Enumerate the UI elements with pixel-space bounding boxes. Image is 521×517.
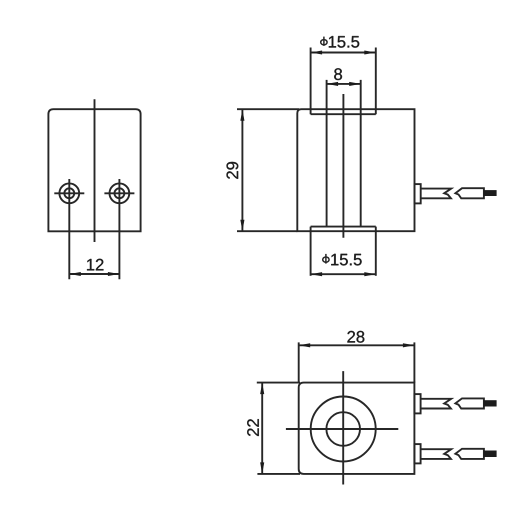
top view lead grommet tab 1	[414, 394, 420, 413]
side view body outline	[297, 109, 414, 231]
side view bottom edge / 29 extension line bottom	[237, 230, 297, 232]
dimension 8	[327, 68, 361, 86]
top view terminal 2 crimp (black)	[484, 451, 497, 458]
coil bore circle (phi8)	[326, 412, 360, 446]
dimension 22	[247, 383, 264, 474]
bore line left (8mm)	[326, 80, 328, 227]
side view vertical centerline	[342, 94, 344, 238]
mounting hole H2	[104, 179, 134, 279]
front view body outline	[48, 109, 140, 231]
top boss lip line	[311, 113, 376, 115]
top view body outline	[299, 383, 415, 474]
front view vertical centerline	[94, 99, 96, 242]
top view lead grommet tab 2	[414, 444, 420, 463]
dimension 28	[299, 331, 415, 347]
side view top edge / 29 extension line top	[237, 108, 299, 110]
top boss edge right / phi15.5 extension	[375, 48, 377, 115]
top view terminal 1 crimp (black)	[484, 400, 497, 406]
top view 22 extension line top	[257, 382, 300, 384]
top view horizontal centerline	[286, 428, 398, 430]
top view 28 extension line left	[298, 342, 300, 382]
dimension 29	[227, 109, 245, 231]
dimension phi15.5 bottom	[311, 254, 376, 276]
side view terminal crimp (black)	[484, 190, 497, 196]
dimension phi15.5 top	[311, 36, 376, 54]
top view lead wire 2 with break	[421, 449, 452, 459]
bottom boss edge right / phi15.5 extension	[375, 227, 377, 276]
coil boss circle (phi15.5)	[311, 397, 376, 462]
bore line right (8mm)	[360, 80, 362, 227]
top view terminal 1	[455, 398, 484, 408]
top boss edge left / phi15.5 extension	[310, 48, 312, 115]
side view lead wire with break	[421, 189, 452, 199]
top view 28 extension line right	[413, 342, 415, 382]
top view terminal 2	[455, 449, 484, 459]
top view vertical centerline	[342, 371, 344, 484]
bottom boss lip line	[311, 226, 376, 228]
dimension 12	[69, 259, 119, 276]
top view lead wire 1 with break	[421, 399, 452, 409]
side view lead grommet tab	[415, 184, 421, 203]
top view 22 extension line bottom	[257, 473, 300, 475]
bottom boss edge left / phi15.5 extension	[310, 227, 312, 276]
side view terminal	[455, 188, 484, 198]
mounting hole H1	[54, 179, 84, 279]
